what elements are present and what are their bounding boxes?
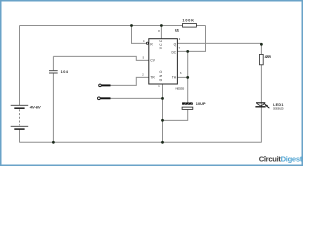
wire R2 top stub xyxy=(260,43,262,54)
node junction top rail vcc xyxy=(160,24,163,27)
node junction C2 ground xyxy=(52,141,55,144)
CircuitDigest logo xyxy=(259,154,303,163)
capacitor C2 104 xyxy=(49,70,69,74)
wire R1 right lead xyxy=(196,25,205,27)
node junction Q corner xyxy=(260,43,263,46)
node junction pin7 xyxy=(186,50,189,53)
node junction gnd terminal2 xyxy=(161,97,164,100)
wire DC pin7 net xyxy=(177,26,205,52)
node junction pin6 xyxy=(186,76,189,79)
svg-text:DC: DC xyxy=(171,51,176,55)
op-amp U1 NE555 timer xyxy=(142,27,184,90)
wire R2 to LED and ground rail xyxy=(260,65,262,143)
svg-text:LED1: LED1 xyxy=(273,103,283,107)
LED1 diode xyxy=(255,103,284,111)
svg-text:CîrcuitDigest: CîrcuitDigest xyxy=(259,154,303,163)
svg-text:TR: TR xyxy=(150,75,155,79)
wire reset drop to pin4 xyxy=(132,26,147,44)
resistor R2 470R xyxy=(260,54,272,64)
node junction C1 return xyxy=(161,119,164,122)
wire C2 top stub xyxy=(52,56,54,70)
wire top rail VCC xyxy=(20,25,183,27)
svg-text:104: 104 xyxy=(61,70,69,74)
resistor R1 100K xyxy=(182,18,196,27)
node junction gnd rail xyxy=(161,141,164,144)
svg-text:470R: 470R xyxy=(265,55,272,59)
wire bottom ground rail xyxy=(20,141,262,143)
wire C1 bottom return xyxy=(163,110,188,121)
svg-text:NE555: NE555 xyxy=(176,87,185,91)
node junction top rail reset xyxy=(130,24,133,27)
svg-text:100K: 100K xyxy=(182,18,194,22)
svg-text:4V-6V: 4V-6V xyxy=(29,105,41,110)
wire VCC drop to pin8 xyxy=(160,26,162,39)
svg-text:VCC: VCC xyxy=(159,39,163,49)
pin bubble reset pin4 xyxy=(146,42,148,44)
svg-text:TH: TH xyxy=(172,75,177,79)
wire GND pin1 drop xyxy=(162,84,164,143)
capacitor C1 10UP electrolytic xyxy=(182,102,206,109)
svg-text:GND: GND xyxy=(159,70,163,81)
wire C2 bottom to ground rail xyxy=(52,73,54,142)
wire terminal2 to GND net xyxy=(111,97,163,99)
wire CV net to pin5 xyxy=(53,56,148,60)
wire TH pin6 stub xyxy=(177,76,187,78)
wire Q output pin3 to R2 xyxy=(177,42,261,44)
LED emission arrows xyxy=(264,103,267,105)
battery BT1 4V-6V xyxy=(11,105,41,129)
wire left rail battery top xyxy=(19,26,21,106)
svg-text:10UP: 10UP xyxy=(196,102,206,106)
wire battery bottom stub xyxy=(19,129,21,142)
terminal probe T2 (ground touch point) xyxy=(98,97,111,100)
wire pin7 to pin6 vertical xyxy=(187,51,189,102)
terminal probe T1 (trigger touch point) xyxy=(99,84,111,87)
svg-text:DIODE-LED: DIODE-LED xyxy=(273,108,284,110)
wire TR pin2 to terminal xyxy=(111,77,149,85)
